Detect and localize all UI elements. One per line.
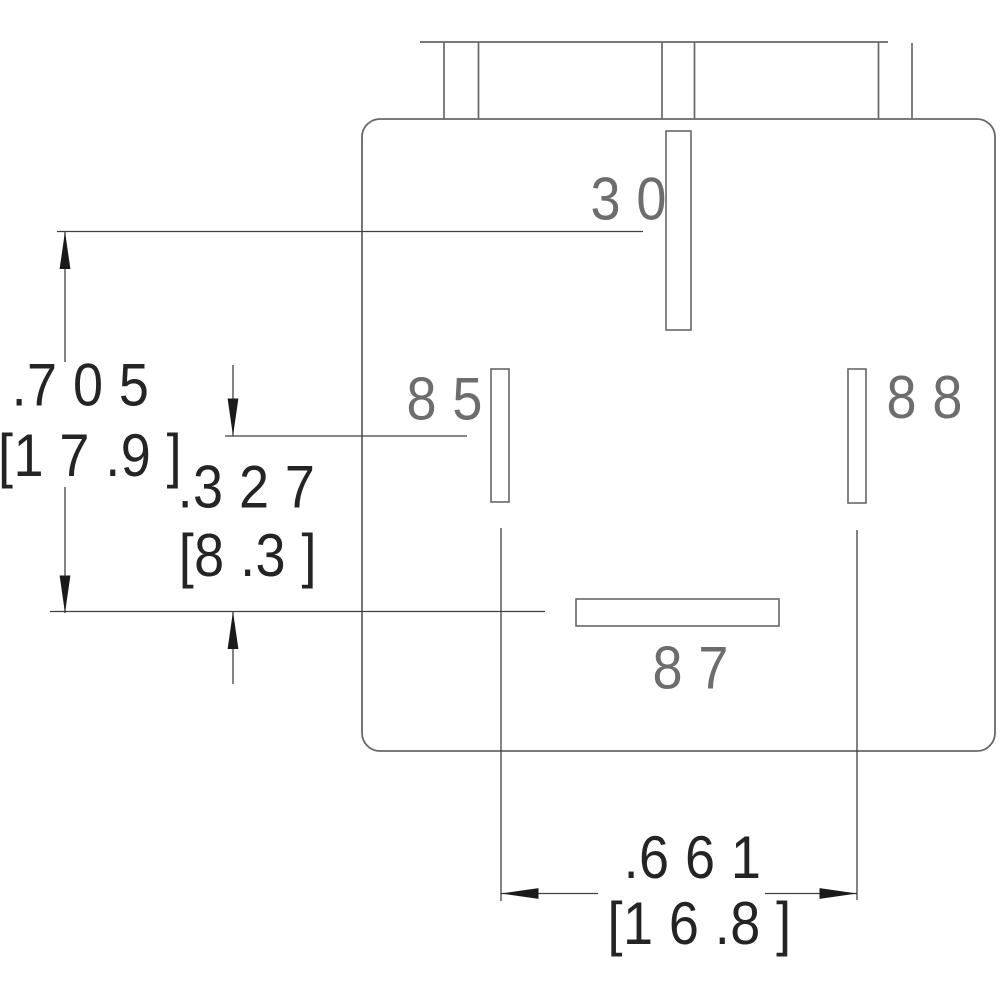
terminal 30 blade slot bbox=[666, 131, 691, 330]
dimension .705 arrowhead down bbox=[60, 576, 71, 614]
dimension line .327 upper segment bbox=[232, 365, 234, 436]
svg-text:[1 7 .9 ]: [1 7 .9 ] bbox=[0, 422, 182, 489]
mounting tab right leg 2 bbox=[911, 43, 913, 118]
mounting tab left leg 1 bbox=[443, 42, 445, 119]
svg-text:.6 6 1: .6 6 1 bbox=[624, 824, 762, 891]
mounting tab right leg 1 bbox=[878, 42, 880, 119]
svg-text:.7 0 5: .7 0 5 bbox=[12, 352, 150, 419]
dimension .661 arrowhead right bbox=[820, 888, 858, 899]
svg-text:8 7: 8 7 bbox=[653, 635, 729, 702]
dimension .705 arrowhead up bbox=[60, 232, 71, 270]
dimension line .327 lower segment bbox=[232, 612, 234, 685]
dimension .327 arrowhead up bbox=[228, 612, 239, 650]
dimension .327 arrowhead down bbox=[228, 399, 239, 437]
relay body outline (bottom view) bbox=[362, 119, 995, 751]
terminal 87 blade slot bbox=[576, 599, 779, 626]
svg-text:3 0: 3 0 bbox=[591, 166, 667, 233]
terminal 88 blade slot bbox=[848, 369, 866, 503]
dimension line .705 vertical upper segment bbox=[64, 232, 66, 363]
mounting tab center leg 2 bbox=[694, 42, 696, 119]
leader line to terminal 30 bbox=[57, 231, 643, 233]
dimension .661 arrowhead left bbox=[501, 888, 539, 899]
dimension line .705 vertical lower segment bbox=[64, 487, 66, 613]
svg-text:8 5: 8 5 bbox=[407, 366, 483, 433]
svg-text:.3 2 7: .3 2 7 bbox=[178, 454, 316, 521]
leader line to terminal 85 bbox=[225, 435, 467, 437]
terminal 85 blade slot bbox=[491, 369, 509, 502]
svg-text:8 8: 8 8 bbox=[887, 364, 963, 431]
relay cover top plate line bbox=[420, 41, 888, 43]
svg-text:[8 .3 ]: [8 .3 ] bbox=[179, 522, 317, 589]
leader line to terminal 87 bbox=[50, 611, 545, 613]
extension line from terminal 85 bbox=[500, 528, 502, 901]
svg-text:[1 6 .8 ]: [1 6 .8 ] bbox=[608, 890, 792, 957]
dimension line .661 left segment bbox=[501, 893, 598, 895]
mounting tab center leg 1 bbox=[661, 42, 663, 119]
dimension line .661 right segment bbox=[765, 893, 857, 895]
mounting tab left leg 2 bbox=[478, 42, 480, 119]
extension line from terminal 88 bbox=[856, 530, 858, 900]
